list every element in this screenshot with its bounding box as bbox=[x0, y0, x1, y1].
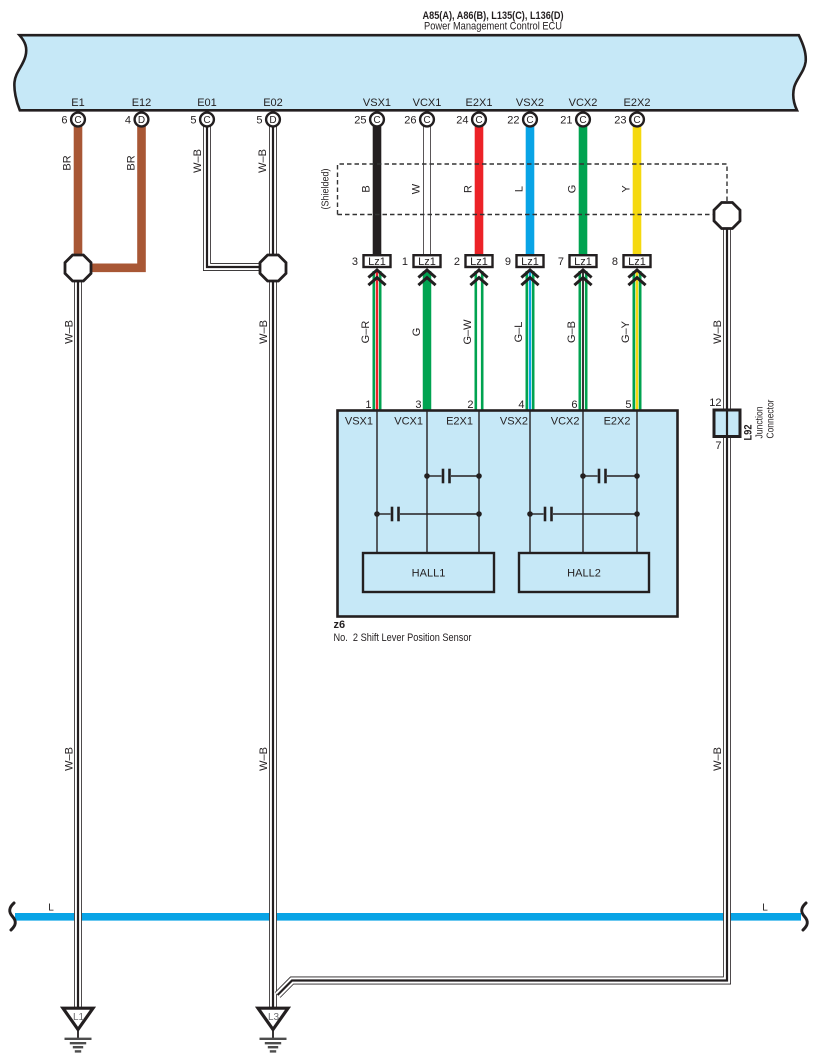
ground L3 bbox=[258, 1008, 288, 1051]
svg-text:R: R bbox=[463, 185, 475, 193]
svg-text:E12: E12 bbox=[132, 97, 152, 109]
svg-text:E1: E1 bbox=[71, 97, 84, 109]
wire G-R from Lz1 to sensor pin 1 bbox=[373, 271, 382, 411]
ground L1 bbox=[63, 1008, 93, 1051]
svg-text:3: 3 bbox=[352, 256, 358, 268]
wire W from VCX1 pin 26(C) to Lz1 bbox=[423, 126, 431, 254]
svg-text:7: 7 bbox=[558, 256, 564, 268]
block HALL1 bbox=[363, 553, 494, 592]
svg-text:5: 5 bbox=[256, 115, 262, 127]
connector Lz1 pin 7 bbox=[558, 255, 597, 268]
svg-text:W–B: W–B bbox=[712, 747, 724, 771]
svg-text:VCX2: VCX2 bbox=[551, 416, 580, 428]
wire G from VCX2 pin 21(C) to Lz1 bbox=[579, 126, 588, 254]
pin VSX2 22(C) bbox=[507, 113, 537, 127]
svg-text:26: 26 bbox=[404, 115, 416, 127]
svg-text:E2X1: E2X1 bbox=[446, 416, 473, 428]
svg-text:G–B: G–B bbox=[566, 321, 578, 343]
svg-text:VCX1: VCX1 bbox=[394, 416, 423, 428]
svg-text:L: L bbox=[48, 903, 54, 914]
svg-text:Lz1: Lz1 bbox=[368, 256, 386, 268]
svg-text:BR: BR bbox=[62, 155, 74, 170]
svg-text:BR: BR bbox=[126, 155, 138, 170]
svg-text:Lz1: Lz1 bbox=[628, 256, 646, 268]
svg-text:7: 7 bbox=[715, 440, 721, 452]
break squiggle left of EL line bbox=[10, 903, 16, 930]
pin E02 5(D) bbox=[256, 113, 280, 127]
svg-text:VCX1: VCX1 bbox=[413, 97, 442, 109]
svg-text:VCX2: VCX2 bbox=[569, 97, 598, 109]
pin E01 5(C) bbox=[190, 113, 214, 127]
svg-text:23: 23 bbox=[614, 115, 626, 127]
capacitor C between VCX2 and E2X2 bbox=[580, 469, 640, 484]
capacitor C between VSX1 and E2X1 bbox=[374, 507, 482, 522]
sensor z6 No.2 Shift Lever Position Sensor box bbox=[338, 411, 678, 617]
pin E12 4(D) bbox=[125, 113, 149, 127]
svg-text:W–B: W–B bbox=[192, 149, 204, 173]
wire W-B from junction E1 to ground L1 bbox=[74, 280, 82, 1007]
junction octagon E1/E12 bbox=[65, 255, 91, 281]
connector Lz1 pin 3 bbox=[352, 255, 391, 268]
svg-text:B: B bbox=[361, 185, 373, 192]
svg-text:HALL1: HALL1 bbox=[412, 568, 446, 580]
wire BR from E12 pin 4(D) bbox=[91, 126, 142, 268]
ECU title A85(A), A86(B), L135(C), L136(D) bbox=[423, 10, 564, 33]
svg-text:E01: E01 bbox=[197, 97, 217, 109]
pin VSX1 25(C) bbox=[354, 113, 384, 127]
svg-text:G: G bbox=[567, 185, 579, 194]
svg-text:Lz1: Lz1 bbox=[470, 256, 488, 268]
sensor internal wire VCX1 bbox=[426, 412, 428, 554]
svg-text:21: 21 bbox=[560, 115, 572, 127]
sensor internal wire VSX2 bbox=[529, 412, 531, 554]
svg-text:L: L bbox=[762, 903, 768, 914]
svg-text:G–R: G–R bbox=[360, 321, 372, 344]
svg-text:G–Y: G–Y bbox=[620, 320, 632, 343]
junction connector L92 bbox=[709, 397, 776, 452]
svg-text:Lz1: Lz1 bbox=[521, 256, 539, 268]
svg-text:G: G bbox=[411, 328, 423, 337]
svg-text:Power Management Control ECU: Power Management Control ECU bbox=[424, 21, 562, 33]
svg-text:9: 9 bbox=[505, 256, 511, 268]
svg-text:G–L: G–L bbox=[513, 322, 525, 343]
svg-text:C: C bbox=[423, 115, 430, 126]
capacitor C between VSX2 and E2X2 bbox=[527, 507, 640, 522]
wire G-W from Lz1 to sensor pin 2 bbox=[475, 271, 484, 411]
svg-text:22: 22 bbox=[507, 115, 519, 127]
svg-text:W–B: W–B bbox=[258, 320, 270, 344]
svg-text:4: 4 bbox=[125, 115, 131, 127]
svg-text:C: C bbox=[373, 115, 380, 126]
svg-text:W: W bbox=[411, 183, 423, 194]
svg-text:C: C bbox=[475, 115, 482, 126]
svg-text:6: 6 bbox=[61, 115, 67, 127]
svg-text:24: 24 bbox=[456, 115, 468, 127]
svg-text:5: 5 bbox=[190, 115, 196, 127]
svg-text:Junction: Junction bbox=[755, 407, 766, 439]
svg-text:W–B: W–B bbox=[258, 747, 270, 771]
wire Y from E2X2 pin 23(C) to Lz1 bbox=[633, 126, 642, 254]
svg-text:G–W: G–W bbox=[462, 319, 474, 345]
svg-text:C: C bbox=[74, 115, 81, 126]
svg-text:L: L bbox=[514, 186, 526, 192]
connector Lz1 pin 8 bbox=[612, 255, 651, 268]
svg-text:C: C bbox=[526, 115, 533, 126]
pin VCX2 21(C) bbox=[560, 113, 590, 127]
svg-text:D: D bbox=[138, 115, 145, 126]
connector Lz1 pin 9 bbox=[505, 255, 544, 268]
svg-text:2: 2 bbox=[454, 256, 460, 268]
wire G-B from Lz1 to sensor pin 6 bbox=[579, 271, 588, 411]
connector Lz1 pin 2 bbox=[454, 255, 493, 268]
svg-text:W–B: W–B bbox=[257, 149, 269, 173]
svg-text:VSX2: VSX2 bbox=[500, 416, 528, 428]
wire R from E2X1 pin 24(C) to Lz1 bbox=[475, 126, 484, 254]
svg-text:W–B: W–B bbox=[64, 747, 76, 771]
ECU A85/A86/L135/L136 Power Management Control ECU band bbox=[14, 35, 805, 110]
svg-text:Connector: Connector bbox=[766, 399, 777, 439]
shield dashed box (Shielded) bbox=[321, 164, 728, 215]
chevron arrows below Lz1 pin 8 bbox=[628, 270, 645, 285]
svg-text:Lz1: Lz1 bbox=[418, 256, 436, 268]
svg-text:8: 8 bbox=[612, 256, 618, 268]
svg-text:Lz1: Lz1 bbox=[574, 256, 592, 268]
svg-text:z6: z6 bbox=[334, 619, 346, 631]
svg-text:25: 25 bbox=[354, 115, 366, 127]
wire B from VSX1 pin 25(C) to Lz1 bbox=[373, 126, 382, 254]
pin E1 6(C) bbox=[61, 113, 85, 127]
svg-text:E2X2: E2X2 bbox=[604, 416, 631, 428]
wire W-B from E02 pin 5(D) bbox=[269, 126, 277, 258]
svg-text:VSX2: VSX2 bbox=[516, 97, 544, 109]
svg-text:No. 2 Shift Lever Position Se: No. 2 Shift Lever Position Sensor bbox=[334, 632, 472, 644]
svg-text:Y: Y bbox=[621, 185, 633, 193]
svg-text:1: 1 bbox=[402, 256, 408, 268]
wire G-L from Lz1 to sensor pin 4 bbox=[526, 271, 535, 411]
svg-text:D: D bbox=[269, 115, 276, 126]
svg-text:E2X2: E2X2 bbox=[624, 97, 651, 109]
EL blue line L bbox=[15, 903, 801, 921]
sensor internal wire E2X1 bbox=[478, 412, 480, 554]
sensor internal wire VSX1 bbox=[376, 412, 378, 554]
svg-text:L92: L92 bbox=[743, 425, 755, 441]
svg-text:E2X1: E2X1 bbox=[466, 97, 493, 109]
wire W-B from E01 pin 5(C) bbox=[207, 126, 261, 267]
svg-text:(Shielded): (Shielded) bbox=[321, 169, 332, 210]
svg-text:12: 12 bbox=[709, 397, 721, 409]
sensor internal wire E2X2 bbox=[636, 412, 638, 554]
pin E2X2 23(C) bbox=[614, 113, 644, 127]
chevron arrows below Lz1 pin 2 bbox=[470, 270, 487, 285]
svg-text:L1: L1 bbox=[73, 1012, 85, 1023]
svg-text:HALL2: HALL2 bbox=[567, 568, 601, 580]
pin E2X1 24(C) bbox=[456, 113, 486, 127]
svg-text:VSX1: VSX1 bbox=[345, 416, 373, 428]
wire G from Lz1 to sensor pin 3 bbox=[423, 271, 432, 411]
wire L from VSX2 pin 22(C) to Lz1 bbox=[526, 126, 535, 254]
svg-text:C: C bbox=[203, 115, 210, 126]
chevron arrows below Lz1 pin 1 bbox=[418, 270, 435, 285]
chevron arrows below Lz1 pin 3 bbox=[368, 270, 385, 285]
junction octagon shield drain bbox=[714, 203, 740, 229]
svg-text:W–B: W–B bbox=[64, 320, 76, 344]
chevron arrows below Lz1 pin 9 bbox=[521, 270, 538, 285]
wire BR from E1 pin 6(C) bbox=[74, 126, 83, 256]
wire W-B from shield octagon through L92 to ground L3 bbox=[278, 228, 727, 995]
junction octagon E01/E02 bbox=[260, 255, 286, 281]
pin VCX1 26(C) bbox=[404, 113, 434, 127]
chevron arrows below Lz1 pin 7 bbox=[574, 270, 591, 285]
svg-text:L3: L3 bbox=[268, 1012, 280, 1023]
svg-text:VSX1: VSX1 bbox=[363, 97, 391, 109]
block HALL2 bbox=[519, 553, 649, 592]
label z6 No. 2 Shift Lever Position Sensor bbox=[334, 619, 472, 644]
svg-text:W–B: W–B bbox=[712, 320, 724, 344]
wire G-Y from Lz1 to sensor pin 5 bbox=[633, 271, 642, 411]
svg-text:E02: E02 bbox=[263, 97, 283, 109]
capacitor C between VCX1 and E2X1 bbox=[424, 469, 482, 484]
connector Lz1 pin 1 bbox=[402, 255, 441, 268]
break squiggle right of EL line bbox=[802, 903, 808, 930]
wire W-B from junction E02 to ground L3 bbox=[269, 280, 277, 1007]
sensor internal wire VCX2 bbox=[582, 412, 584, 554]
svg-text:C: C bbox=[579, 115, 586, 126]
svg-text:C: C bbox=[633, 115, 640, 126]
